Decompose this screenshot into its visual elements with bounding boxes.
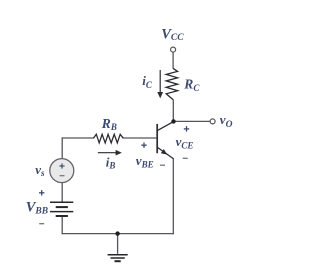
- wire base horizontal left segment: [62, 137, 94, 139]
- node collector junction dot: [171, 119, 175, 123]
- wire battery to bottom rail: [61, 216, 63, 234]
- terminal vO open circle: [210, 119, 215, 124]
- minus vBE: [160, 164, 165, 166]
- transistor Q1 base bar: [156, 124, 158, 153]
- wire VCC terminal down to RC: [172, 52, 174, 68]
- svg-text:vs: vs: [35, 162, 45, 178]
- wire bottom rail: [62, 233, 174, 235]
- minus inside vs: [60, 175, 65, 177]
- svg-text:vO: vO: [220, 112, 233, 130]
- transistor Q1 emitter diagonal: [158, 148, 174, 159]
- wire emitter vertical down to bottom rail: [172, 158, 174, 234]
- wire ground stub: [117, 234, 119, 254]
- arrow iB current: [98, 152, 117, 154]
- svg-text:vCE: vCE: [176, 134, 194, 151]
- resistor RC: [166, 68, 177, 99]
- minus VBB: [39, 223, 44, 225]
- svg-text:VBB: VBB: [26, 200, 48, 217]
- node ground junction dot: [115, 231, 119, 235]
- source vs circle: [50, 159, 74, 183]
- transistor Q1 collector diagonal: [158, 122, 174, 131]
- svg-text:iB: iB: [106, 155, 116, 171]
- svg-text:vBE: vBE: [136, 153, 154, 170]
- plus VBB: [39, 190, 44, 195]
- arrow iC current: [159, 70, 161, 93]
- wire RC to collector node: [172, 99, 174, 121]
- svg-text:iC: iC: [142, 73, 153, 90]
- battery VBB plates: [50, 201, 73, 203]
- transistor Q1 emitter arrowhead: [161, 149, 167, 155]
- svg-text:RB: RB: [101, 116, 117, 132]
- plus vBE: [141, 143, 146, 148]
- plus vCE: [184, 126, 189, 131]
- minus vCE: [183, 157, 188, 159]
- wire left vertical rail: [61, 137, 63, 202]
- svg-text:VCC: VCC: [161, 26, 184, 43]
- ground: [108, 254, 128, 256]
- svg-text:RC: RC: [183, 76, 200, 92]
- wire RB to transistor base: [123, 137, 156, 139]
- plus inside vs: [59, 163, 64, 168]
- terminal VCC open circle: [171, 47, 176, 52]
- resistor RB: [93, 134, 123, 143]
- wire collector node to vO terminal: [173, 120, 210, 122]
